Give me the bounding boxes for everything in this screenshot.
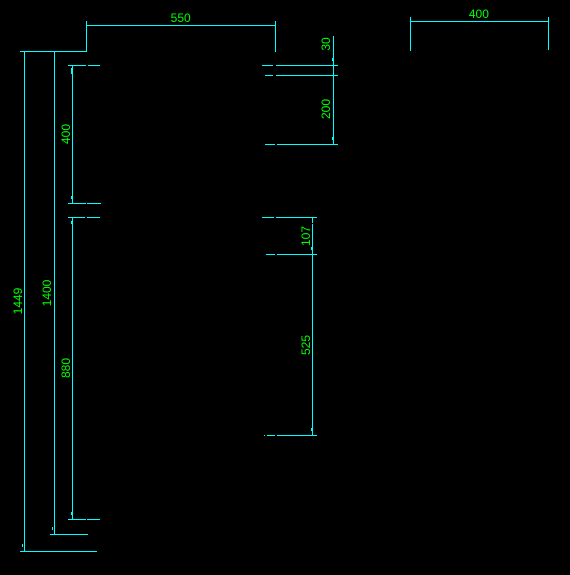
extension line y217 right solid [276,217,318,218]
dimension line 550 (horizontal) [86,25,276,26]
extension line right of 550 [275,21,276,52]
extension line y75 right solid [276,75,338,76]
arrowhead 107 bottom [311,247,312,250]
text 1400 [42,279,52,306]
extension line y65 right dash [262,65,274,66]
arrowhead 400 top [71,68,72,74]
extension line y519 left dash b [87,519,100,520]
text 525 [301,335,311,355]
arrowhead 30 outside [332,58,333,61]
extension line y254 dash [266,254,276,255]
arrowhead 880 top [71,221,72,224]
extension line left of 550 [86,21,87,52]
extension line y144 solid [277,144,339,145]
dimension line 107+525 chain lower part [312,224,313,435]
arrowhead 200 bottom [332,137,333,140]
text 107 [301,226,311,246]
extension line left of 400 [410,17,411,51]
text 1449 [13,287,23,314]
dimension line 1400 (vertical) [54,51,55,534]
dimension line 400 top right (horizontal) [410,21,549,22]
extension line y65 left dash b [88,65,101,66]
extension line y217 left dash a [68,217,85,218]
extension line right of 400 [548,17,549,50]
text 200 [321,98,331,118]
extension line 1400 bottom [50,534,88,535]
extension line y203 left dash a [68,203,86,204]
extension line y254 solid [277,254,318,255]
arrowhead 880 bottom [71,512,72,515]
extension line y144 dash [265,144,275,145]
text 400 left [61,124,71,144]
dimension line 1449 (vertical) [24,51,25,551]
text 550 [171,13,191,23]
extension line y217 right dash [262,217,274,218]
extension line y65 left dash a [68,65,86,66]
extension line y217 left dash b [87,217,100,218]
arrowhead 1449 bottom [22,544,23,547]
arrowhead 400 bottom [71,196,72,199]
arrowhead 1400 bottom [52,527,53,530]
dimension line 880 (vertical) [72,217,73,519]
dimension line 400 left (vertical) [72,65,73,203]
text 400 top right [469,9,489,19]
dimension line 107+525 chain (vertical) [312,217,313,223]
extension line y435 solid [277,435,318,436]
arrowhead 525 bottom [311,428,312,431]
dimension line 30+200 chain (vertical) [333,36,334,145]
top extension line at y51 [20,51,87,52]
text 880 [61,358,71,378]
extension line y519 left dash a [68,519,86,520]
extension line y435 dash [267,435,276,436]
extension line 1449 bottom [20,551,97,552]
text 30 [321,37,331,50]
extension line y75 right dash [265,75,274,76]
extension line y203 left dash b [87,203,101,204]
extension line y435 dot [264,435,266,436]
extension line y65 right solid [276,65,339,66]
